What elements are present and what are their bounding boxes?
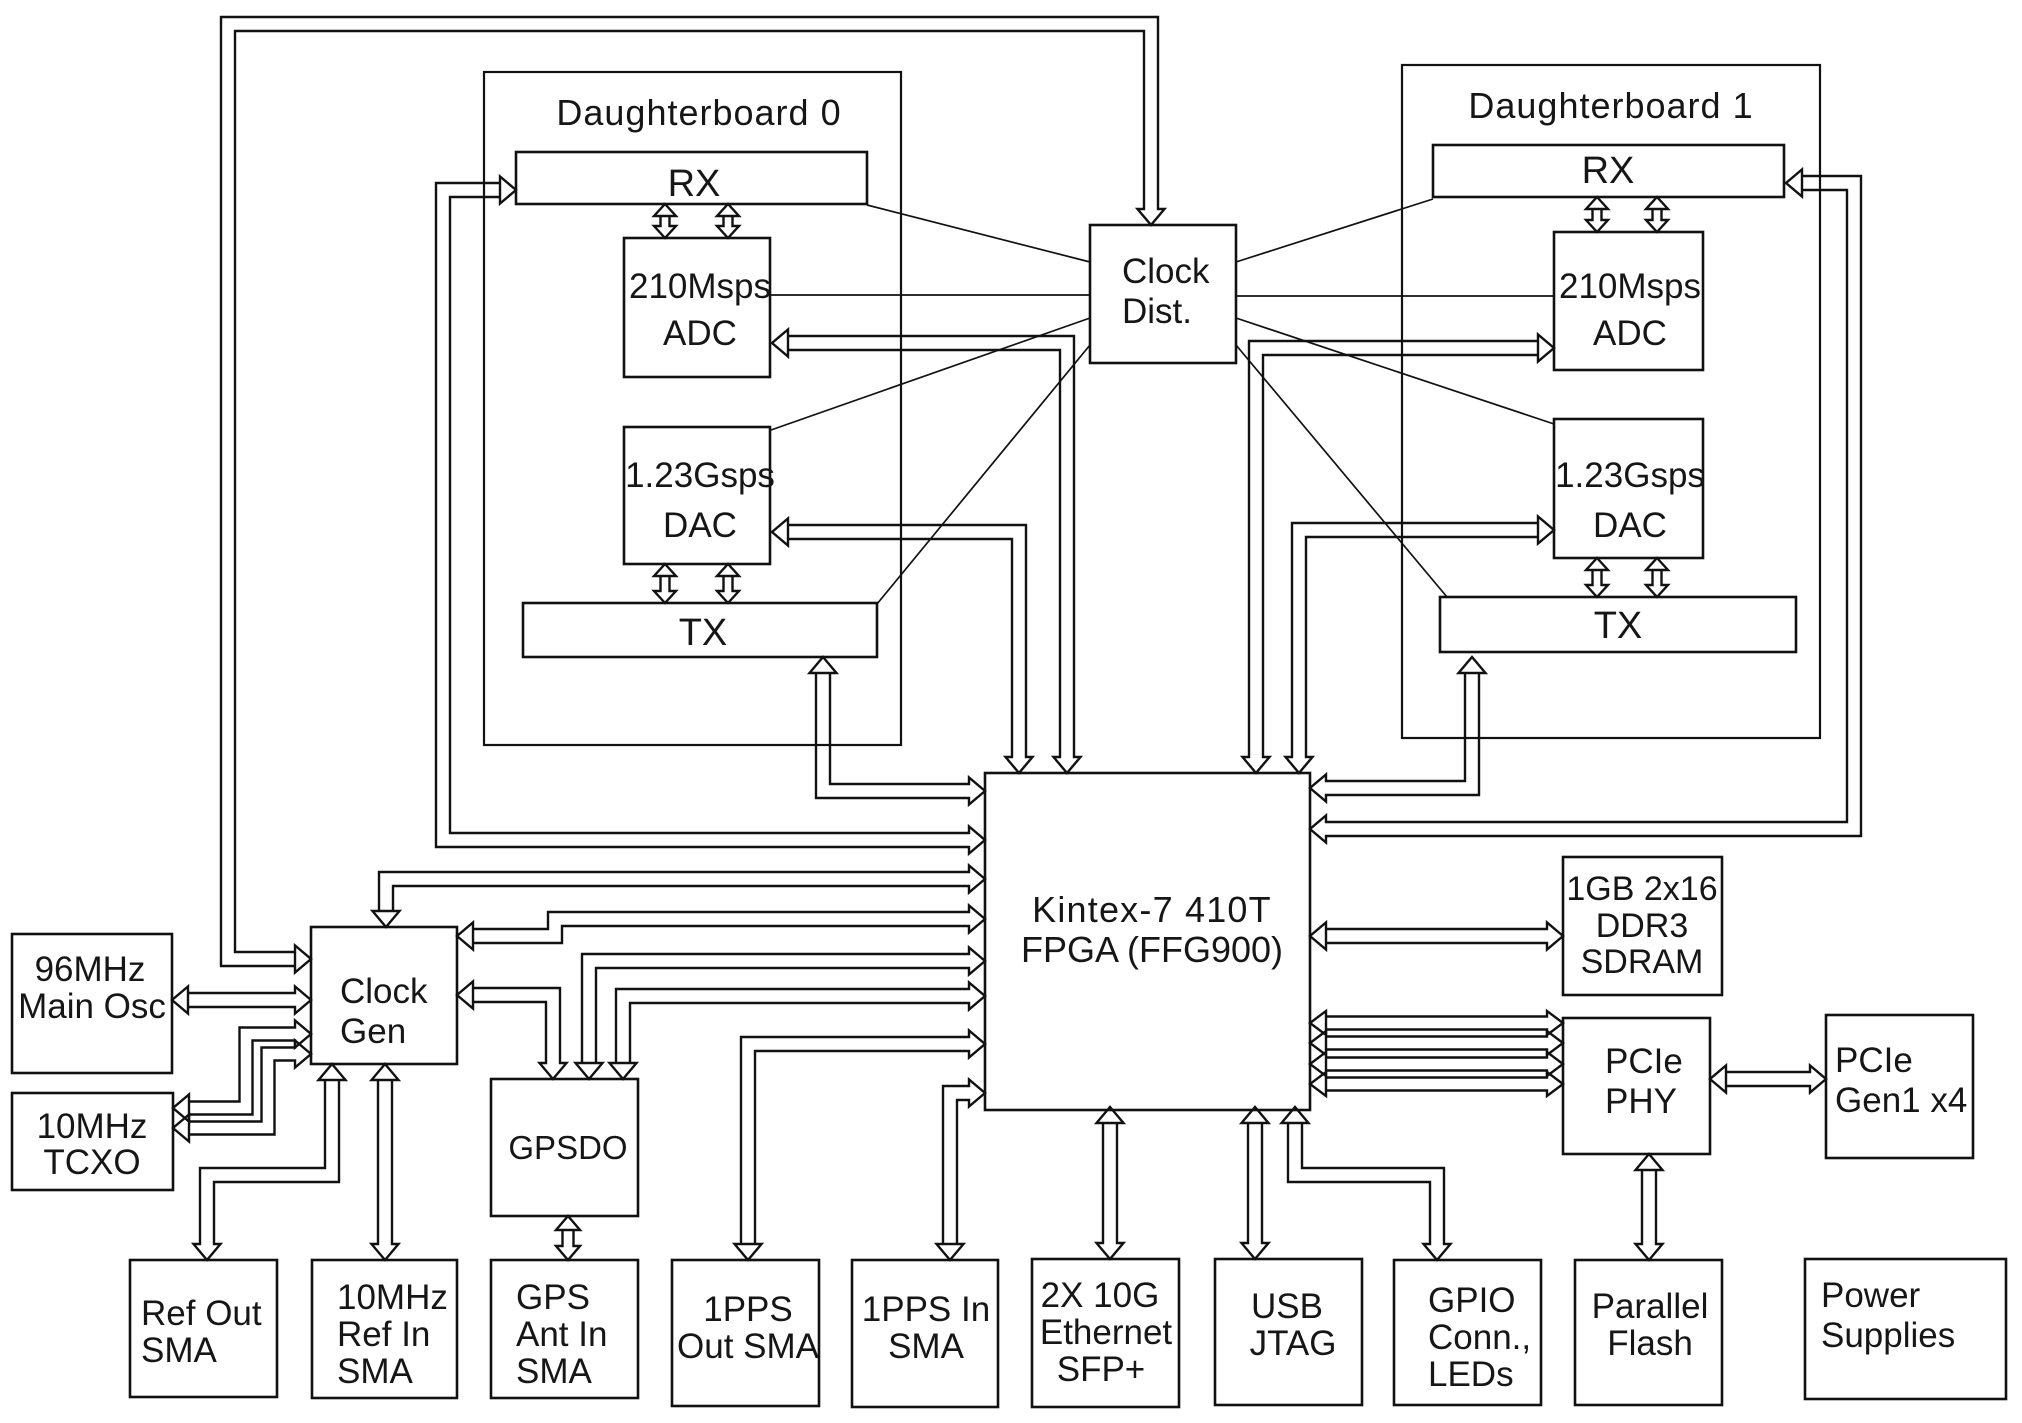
daughterboard 1 enclosure (1402, 65, 1820, 738)
wire 1PPS In to FPGA (937, 1080, 986, 1261)
block 10MHz Ref In SMA (312, 1260, 457, 1398)
wire ADC1 to FPGA (1243, 335, 1555, 774)
wire FPGA to DAC1 (1286, 517, 1555, 774)
svg-text:Gen: Gen (340, 1012, 406, 1051)
svg-text:PHY: PHY (1605, 1082, 1677, 1121)
svg-text:SFP+: SFP+ (1057, 1350, 1146, 1389)
svg-text:FPGA (FFG900): FPGA (FFG900) (1021, 929, 1283, 970)
svg-text:Clock: Clock (1122, 252, 1210, 291)
wire Clock Gen to Ref Out SMA (194, 1064, 346, 1260)
svg-text:210Msps: 210Msps (1559, 267, 1701, 306)
wire DAC1 to TX1 at x1597 (1586, 558, 1608, 597)
wire FPGA to PCIe PHY 1 (1310, 1011, 1563, 1035)
wire Clock Gen to GPSDO (457, 982, 567, 1080)
svg-text:Ref Out: Ref Out (141, 1294, 262, 1333)
svg-text:LEDs: LEDs (1428, 1355, 1514, 1394)
wire FPGA to 1PPS Out (735, 1031, 986, 1261)
block TX1 (1440, 597, 1796, 652)
svg-text:DAC: DAC (1593, 506, 1667, 545)
svg-text:96MHz: 96MHz (35, 950, 146, 989)
svg-text:GPSDO: GPSDO (508, 1129, 627, 1166)
svg-text:TCXO: TCXO (43, 1143, 140, 1182)
block RX1 (1433, 145, 1784, 197)
svg-text:1PPS: 1PPS (703, 1290, 793, 1329)
wire FPGA to DDR3 SDRAM (1310, 923, 1563, 950)
svg-text:USB: USB (1251, 1287, 1323, 1326)
svg-text:Ethernet: Ethernet (1040, 1313, 1173, 1352)
wire TCXO to Clock Gen 2 (173, 1041, 311, 1142)
block TX0 (523, 603, 877, 657)
wire RX0 to ADC0 at x728 (717, 204, 739, 238)
block USB JTAG (1215, 1259, 1362, 1405)
block DDR3 SDRAM (1563, 857, 1722, 995)
svg-text:Daughterboard 0: Daughterboard 0 (556, 92, 841, 133)
wire FPGA to USB JTAG (1242, 1107, 1269, 1259)
block ADC0 (624, 238, 770, 377)
wire 96MHz Osc to Clock Gen (172, 987, 311, 1014)
svg-text:1GB 2x16: 1GB 2x16 (1566, 870, 1717, 908)
block Kintex-7 FPGA U2 (985, 773, 1310, 1110)
wire GPSDO to FPGA 1 (576, 948, 986, 1080)
wire FPGA to GPIO (1282, 1107, 1451, 1260)
block DAC0 (624, 427, 770, 564)
svg-text:Conn.,: Conn., (1428, 1318, 1531, 1357)
wire ADC0 to FPGA (772, 330, 1081, 774)
svg-text:Clock: Clock (340, 972, 428, 1011)
svg-text:DAC: DAC (663, 506, 737, 545)
wire FPGA to Ethernet SFP+ (1097, 1107, 1124, 1259)
block GPSDO (491, 1079, 638, 1216)
wire FPGA to PCIe PHY 3 (1310, 1052, 1563, 1076)
svg-text:Parallel: Parallel (1592, 1287, 1709, 1326)
svg-text:1PPS In: 1PPS In (862, 1290, 990, 1329)
svg-text:2X 10G: 2X 10G (1041, 1276, 1160, 1315)
block ADC1 (1554, 232, 1703, 370)
svg-text:GPS: GPS (516, 1278, 590, 1317)
svg-text:Out SMA: Out SMA (677, 1327, 820, 1366)
svg-text:PCIe: PCIe (1605, 1042, 1683, 1081)
svg-text:10MHz: 10MHz (37, 1107, 148, 1146)
wire PCIe PHY to Parallel Flash (1636, 1154, 1663, 1260)
svg-text:210Msps: 210Msps (629, 267, 771, 306)
block 1PPS Out SMA (672, 1260, 819, 1406)
svg-text:PCIe: PCIe (1835, 1041, 1913, 1080)
block PCIe Gen1 x4 (1826, 1015, 1973, 1158)
svg-text:ADC: ADC (1593, 314, 1667, 353)
svg-text:1.23Gsps: 1.23Gsps (625, 456, 775, 495)
svg-text:SMA: SMA (141, 1331, 218, 1370)
svg-text:RX: RX (1582, 150, 1635, 192)
wire GPS Ant In to GPSDO (556, 1216, 580, 1260)
wire GPSDO to FPGA 2 (610, 983, 986, 1080)
wire clock to ADC1 (1236, 295, 1554, 297)
block RX0 (516, 152, 867, 204)
svg-text:Main Osc: Main Osc (18, 987, 166, 1026)
wire 10MHz Ref In to Clock Gen (372, 1064, 399, 1260)
wire RX0 to ADC0 at x665 (654, 204, 676, 238)
wire FPGA to PCIe PHY 4 (1310, 1072, 1563, 1096)
block 96MHz Main Osc (12, 934, 172, 1073)
svg-text:Gen1 x4: Gen1 x4 (1835, 1081, 1967, 1120)
svg-text:Daughterboard 1: Daughterboard 1 (1468, 85, 1753, 126)
block Clock Gen (311, 927, 457, 1064)
wire FPGA to TX1 (1310, 657, 1486, 802)
block PCIe PHY (1563, 1018, 1710, 1154)
svg-text:GPIO: GPIO (1428, 1281, 1516, 1320)
wire clock to ADC0 (770, 294, 1090, 296)
block DAC1 (1554, 419, 1703, 558)
svg-text:TX: TX (679, 612, 728, 654)
wire RX1 to FPGA (1310, 170, 1861, 843)
wire RX1 to ADC1 at x1657 (1646, 197, 1668, 232)
svg-text:TX: TX (1594, 605, 1643, 647)
wire DAC1 to TX1 at x1657 (1646, 558, 1668, 597)
wire RX0 to FPGA (436, 177, 985, 854)
wire clock to RX0 (867, 205, 1090, 262)
svg-text:Flash: Flash (1607, 1324, 1693, 1363)
wire clock to RX1 (1236, 199, 1433, 262)
svg-text:1.23Gsps: 1.23Gsps (1555, 456, 1705, 495)
block Power Supplies (1805, 1259, 2006, 1399)
wire DAC0 to TX0 at x665 (654, 564, 676, 603)
wire FPGA to PCIe PHY 2 (1310, 1031, 1563, 1055)
wire DAC0 to TX0 at x728 (717, 564, 739, 603)
wire clock to DAC1 (1236, 318, 1554, 424)
svg-text:SDRAM: SDRAM (1581, 943, 1704, 981)
block Parallel Flash (1575, 1260, 1722, 1405)
block 1PPS In SMA (852, 1260, 998, 1407)
wire clock to TX1 (1236, 345, 1447, 597)
svg-text:Power: Power (1821, 1276, 1921, 1315)
svg-text:RX: RX (668, 163, 721, 205)
svg-text:Kintex-7 410T: Kintex-7 410T (1032, 889, 1272, 930)
wire clock to TX0 (877, 345, 1090, 604)
wire Clock Gen to Clock Dist (221, 17, 1165, 973)
svg-text:Ref In: Ref In (337, 1315, 430, 1354)
block Clock Dist U1 (1090, 225, 1236, 363)
wire Clock Gen top to FPGA (373, 866, 986, 928)
block Ref Out SMA (130, 1260, 277, 1397)
wire RX1 to ADC1 at x1597 (1586, 197, 1608, 232)
svg-text:JTAG: JTAG (1250, 1324, 1337, 1363)
wire FPGA to DAC0 (772, 519, 1033, 774)
block GPIO Conn LEDs (1394, 1260, 1541, 1405)
wire PCIe PHY to PCIe Gen1 x4 (1710, 1066, 1826, 1093)
daughterboard 0 enclosure (484, 72, 901, 745)
svg-text:Dist.: Dist. (1122, 292, 1192, 331)
wire TCXO to Clock Gen 1 (173, 1021, 311, 1122)
block 2X 10G Ethernet SFP+ (1032, 1259, 1179, 1407)
svg-text:SMA: SMA (888, 1327, 965, 1366)
wire clock to DAC0 (771, 318, 1090, 430)
svg-text:SMA: SMA (516, 1352, 593, 1391)
block 10MHz TCXO (12, 1093, 173, 1190)
svg-text:10MHz: 10MHz (337, 1278, 448, 1317)
svg-text:Ant In: Ant In (516, 1315, 607, 1354)
svg-text:Supplies: Supplies (1821, 1316, 1955, 1355)
svg-text:DDR3: DDR3 (1596, 907, 1689, 945)
svg-text:ADC: ADC (663, 314, 737, 353)
block GPS Ant In SMA (491, 1260, 638, 1398)
svg-text:SMA: SMA (337, 1352, 414, 1391)
wire FPGA to TX0 (810, 657, 986, 805)
wire Clock Gen to FPGA (457, 906, 985, 950)
